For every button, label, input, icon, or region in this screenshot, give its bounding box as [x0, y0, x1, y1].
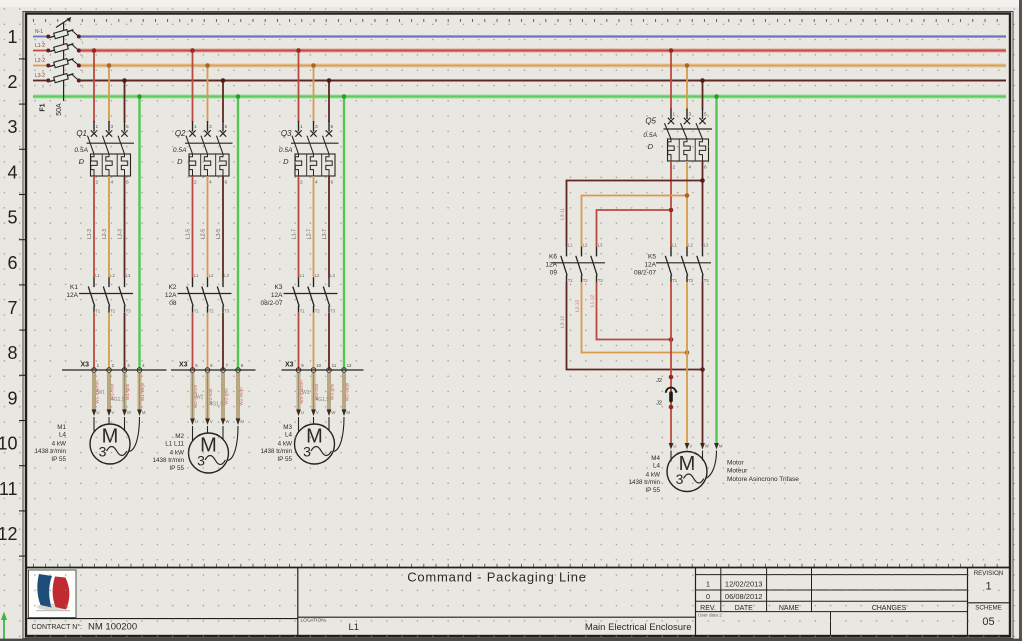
- cable wire W3-marron branch 3: [297, 373, 301, 410]
- wire L3 drop to Q2: [222, 81, 224, 123]
- wire V to motor 1: [108, 417, 110, 425]
- wire V to motor 4: [686, 451, 688, 453]
- contactor K3: [260, 273, 337, 314]
- arrowhead W motor 4: [700, 443, 705, 450]
- arrowhead V motor 1: [107, 410, 112, 417]
- wire K5 T3 down: [702, 282, 704, 444]
- wire V to motor 3: [313, 417, 315, 425]
- wire PE drop branch 4: [715, 97, 717, 445]
- wire L3-5: [222, 176, 224, 278]
- arrowhead U motor 2: [190, 419, 195, 426]
- arrowhead U motor 3: [296, 410, 301, 417]
- wire W to motor 4: [702, 451, 704, 461]
- arrowhead V motor 3: [311, 410, 316, 417]
- rail N (blue): [79, 35, 1006, 37]
- cable wire W1-noir branch 1: [107, 373, 111, 410]
- cable wire W1-ve/jn branch 1: [138, 373, 142, 410]
- arrowhead M motor 1: [137, 410, 142, 417]
- wire PE to motor 3: [334, 417, 344, 452]
- cable wire W2-ve/jn branch 2: [236, 373, 240, 419]
- contactor K2: [165, 273, 232, 314]
- motor M2: [153, 433, 229, 473]
- wire L3-3: [124, 176, 126, 278]
- motor M1: [35, 424, 131, 464]
- wire PE drop branch 1: [138, 97, 140, 371]
- rail PE (green): [33, 94, 1006, 99]
- location label: [301, 618, 360, 634]
- arrowhead W motor 2: [221, 419, 226, 426]
- wire V to motor 2: [207, 426, 209, 434]
- wire PE to motor 4: [706, 451, 717, 479]
- fuse L3-2: [33, 73, 84, 89]
- wire L3-7: [328, 176, 330, 278]
- cable wire W1-marron branch 1: [92, 373, 96, 410]
- contract number: [32, 622, 138, 633]
- motor M3: [261, 424, 335, 464]
- wire loop L3 to K6: [567, 181, 703, 247]
- wire L1-5: [192, 176, 194, 278]
- wire U to motor 4: [670, 451, 672, 462]
- wire L1 drop to Q1: [93, 51, 95, 123]
- cable wire W3-gris branch 3: [327, 373, 331, 410]
- wire K2 T1 to X3: [192, 313, 194, 370]
- motor M4: [629, 452, 708, 495]
- wire PE to motor 1: [129, 417, 139, 452]
- company logo: [29, 570, 77, 618]
- arrowhead M motor 2: [236, 419, 241, 426]
- motor type note: [727, 460, 799, 484]
- arrowhead V motor 2: [205, 419, 210, 426]
- rail L1 (red): [79, 48, 1006, 53]
- cable wire W2-marron branch 2: [191, 373, 195, 419]
- wire K6 T3 loop to motor L1: [597, 282, 672, 340]
- wire W to motor 3: [328, 417, 330, 431]
- cable wire W3-ve/jn branch 3: [342, 373, 346, 410]
- arrowhead V motor 4: [685, 443, 690, 450]
- circuit breaker Q5: [643, 109, 712, 171]
- circuit breaker Q3: [279, 121, 339, 186]
- wire L1 drop to Q5: [670, 51, 672, 110]
- top ruler ticks: [33, 19, 997, 22]
- title block top ticks: [33, 564, 997, 567]
- fuse switch F1: [56, 18, 71, 102]
- wire K5 T2 down: [686, 282, 688, 444]
- revision-scheme box: [968, 570, 1011, 628]
- wire U to motor 1: [93, 417, 95, 432]
- window edge bottom: [0, 639, 1022, 641]
- row numbers 1-12: [0, 27, 18, 544]
- arrowhead M motor 4: [714, 443, 719, 450]
- wire loop L1 to K6: [597, 210, 672, 247]
- pointer arrow (green): [1, 612, 7, 641]
- terminal strip X3 branch 2: [171, 362, 256, 373]
- contactor K1: [66, 273, 133, 314]
- arrowhead U motor 1: [92, 410, 97, 417]
- wire K1 T2 to X3: [108, 313, 110, 370]
- wire K1 T1 to X3: [93, 313, 95, 370]
- cable wire W2-gris branch 2: [221, 373, 225, 419]
- wire W to motor 2: [222, 426, 224, 440]
- wire L2 drop to Q2: [207, 66, 209, 123]
- contactor K5: [634, 242, 711, 282]
- circuit breaker Q1: [74, 121, 134, 186]
- bottom frame bar: [26, 635, 1010, 637]
- wire loop L2 to K6: [582, 196, 688, 247]
- wire K6 T2 loop to motor L2: [582, 282, 688, 353]
- wire K3 T3 to X3: [328, 313, 330, 370]
- wire L2-7: [313, 176, 315, 278]
- wire L2 drop to Q1: [108, 66, 110, 123]
- wire L2 drop to Q3: [313, 66, 315, 123]
- wire L2-5: [207, 176, 209, 278]
- cable wire W1-gris branch 1: [123, 373, 127, 410]
- wire L3 drop to Q5: [702, 81, 704, 110]
- wire L1 drop to Q3: [298, 51, 300, 123]
- wire PE to motor 2: [228, 426, 238, 461]
- cable wire W2-noir branch 2: [206, 373, 210, 419]
- rail L2 (orange): [79, 63, 1006, 68]
- wire K5 T1 down: [670, 282, 672, 377]
- contactor K6: [545, 242, 605, 282]
- wire Q5 out L1 to K5: [670, 161, 672, 247]
- wire K3 T1 to X3: [298, 313, 300, 370]
- row boundary ticks: [19, 59, 27, 556]
- wire L1-7: [298, 176, 300, 278]
- arrowhead W motor 1: [122, 410, 127, 417]
- wire K6 T1 loop to motor L3: [567, 282, 703, 370]
- wire Q5 out L3 to K5: [702, 161, 704, 247]
- wire L3 drop to Q1: [124, 81, 126, 123]
- title block: [26, 568, 1010, 637]
- wire L3 drop to Q3: [328, 81, 330, 123]
- wire L2 drop to Q5: [686, 66, 688, 110]
- wire K2 T2 to X3: [207, 313, 209, 370]
- terminal strip X3 branch 1: [62, 362, 167, 373]
- wire U to motor 3: [298, 417, 300, 432]
- wire U to motor 2: [192, 426, 194, 441]
- arrowhead M motor 3: [342, 410, 347, 417]
- connector J2: [656, 375, 676, 444]
- window edge right: [1019, 0, 1022, 641]
- wire PE drop branch 3: [343, 97, 345, 371]
- fuse N-1: [33, 29, 84, 45]
- rail L3 (dark red): [79, 80, 1006, 82]
- terminal strip X3 branch 3: [282, 362, 364, 373]
- wire L1-3: [93, 176, 95, 278]
- arrowhead W motor 3: [327, 410, 332, 417]
- cable wire W3-noir branch 3: [312, 373, 316, 410]
- wire L1 drop to Q2: [192, 51, 194, 123]
- wire K2 T3 to X3: [222, 313, 224, 370]
- fuse L1-2: [33, 43, 84, 59]
- wire Q5 out L2 to K5: [686, 161, 688, 247]
- wire K3 T2 to X3: [313, 313, 315, 370]
- revision table: [696, 568, 968, 637]
- wire PE drop branch 2: [237, 97, 239, 371]
- wire L2-3: [108, 176, 110, 278]
- wire K1 T3 to X3: [124, 313, 126, 370]
- circuit breaker Q2: [173, 121, 233, 186]
- arrowhead U motor 4: [669, 443, 674, 450]
- wire W to motor 1: [124, 417, 126, 431]
- fuse L2-2: [33, 58, 84, 74]
